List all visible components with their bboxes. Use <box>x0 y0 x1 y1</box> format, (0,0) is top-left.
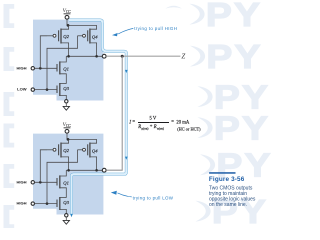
junction dot Q2 drain <box>67 169 70 172</box>
wire Z line <box>106 55 180 57</box>
output terminal <box>102 168 106 172</box>
input HIGH wire <box>35 203 57 205</box>
svg-text:Q2: Q2 <box>63 148 69 153</box>
figure caption rule <box>209 172 235 174</box>
output terminal <box>102 54 106 58</box>
svg-text:PY: PY <box>206 38 262 76</box>
current arrowhead 2 <box>125 157 128 160</box>
junction dot HIGH <box>39 181 42 184</box>
Vcc rail <box>67 26 97 30</box>
Q2 source lead <box>61 26 69 30</box>
transistor Q3 (NMOS) <box>57 197 60 210</box>
svg-text:Q4: Q4 <box>92 148 98 153</box>
svg-text:(HC or HCT): (HC or HCT) <box>177 126 201 131</box>
input HIGH wire <box>35 67 57 69</box>
Q1 drain lead up to output rail <box>60 170 67 176</box>
ground symbol <box>63 106 69 110</box>
svg-text:5 V: 5 V <box>149 117 156 122</box>
Q4 drain lead <box>90 157 97 170</box>
Vcc rail <box>67 140 97 144</box>
input LOW terminal <box>31 88 34 91</box>
wire Vcc down to rail <box>66 19 68 25</box>
svg-text:LOW: LOW <box>17 87 27 92</box>
transistor Q4 (PMOS) <box>78 29 90 44</box>
svg-text:Q1: Q1 <box>63 180 69 185</box>
current arrowhead 1 <box>125 70 128 73</box>
junction dot Vcc rail <box>67 24 70 27</box>
svg-text:=: = <box>132 120 135 125</box>
Vcc power bar <box>64 127 71 129</box>
svg-text:=: = <box>171 120 174 125</box>
transistor Q4 (PMOS) <box>78 143 90 158</box>
svg-text:Q3: Q3 <box>63 200 69 205</box>
svg-text:Q1: Q1 <box>63 66 69 71</box>
svg-text:Q3: Q3 <box>63 86 69 91</box>
ground terminal <box>65 214 68 217</box>
svg-text:trying to pull LOW: trying to pull LOW <box>133 195 174 200</box>
svg-text:on the same line.: on the same line. <box>209 202 247 208</box>
Q3 source lead down to ground <box>60 95 67 99</box>
Q2 drain lead <box>61 43 69 56</box>
current equation <box>128 117 201 132</box>
annotation: trying to pull LOW <box>111 191 174 201</box>
blue current path fill <box>69 20 126 214</box>
input HIGH terminal <box>31 181 34 184</box>
svg-text:PY: PY <box>214 109 270 147</box>
Vcc terminal <box>65 15 69 19</box>
wire HIGH branch to Q2 gate <box>40 36 47 69</box>
wire connecting both outputs <box>106 56 122 170</box>
svg-text:HIGH: HIGH <box>16 65 26 70</box>
svg-text:20 mA: 20 mA <box>176 120 190 125</box>
gate background block <box>33 20 103 101</box>
ground stem <box>65 217 67 220</box>
figure caption text <box>209 185 256 208</box>
annotation: trying to pull HIGH <box>112 26 177 37</box>
Q2 source lead <box>61 140 69 144</box>
svg-text:HIGH: HIGH <box>16 179 26 184</box>
junction dot Q4 drain <box>95 169 98 172</box>
svg-text:Figure 3-56: Figure 3-56 <box>209 176 245 183</box>
junction dot HIGH <box>39 67 42 70</box>
wire input 2 branch to Q4 gate <box>47 150 78 204</box>
Vcc power bar <box>64 13 71 15</box>
svg-text:p(on): p(on) <box>142 126 149 130</box>
svg-text:n(on): n(on) <box>157 126 164 130</box>
wire HIGH branch to Q2 gate <box>40 150 47 183</box>
junction dot Vcc rail <box>67 138 70 141</box>
transistor Q3 (NMOS) <box>57 83 60 96</box>
svg-text:trying to pull HIGH: trying to pull HIGH <box>134 26 177 31</box>
wire Vcc down to rail <box>66 133 68 139</box>
blue current path outline <box>69 20 126 214</box>
input LOW wire <box>35 89 57 91</box>
svg-text:I: I <box>128 120 131 125</box>
input HIGH terminal <box>31 202 34 205</box>
svg-text:+: + <box>150 125 153 130</box>
Q1 drain lead up to output rail <box>60 56 67 62</box>
current arrowhead 3 (into ground) <box>70 214 73 217</box>
junction dot input 2 <box>46 88 49 91</box>
junction dot input 2 <box>46 202 49 205</box>
ground symbol <box>63 220 69 224</box>
ground terminal <box>65 100 68 103</box>
junction dot Q4 drain <box>95 55 98 58</box>
Q3 drain lead up <box>60 83 67 85</box>
transistor Q2 (PMOS) <box>47 143 61 158</box>
output rail <box>66 55 102 57</box>
transistor Q2 (PMOS) <box>47 29 61 44</box>
Q3 drain lead up <box>60 197 67 199</box>
junction dot on Z line <box>121 55 124 58</box>
Q2 drain lead <box>61 157 69 170</box>
wire input 2 branch to Q4 gate <box>47 36 78 90</box>
ground stem <box>65 103 67 106</box>
Q1 source lead down <box>60 74 67 84</box>
input HIGH terminal <box>31 67 34 70</box>
svg-text:HIGH: HIGH <box>16 201 26 206</box>
gate background block <box>33 134 103 215</box>
output rail <box>66 169 102 171</box>
Vcc terminal <box>65 129 69 133</box>
junction dot Q2 drain <box>67 55 70 58</box>
svg-text:Q4: Q4 <box>92 34 98 39</box>
Q4 drain lead <box>90 43 97 56</box>
svg-text:Z: Z <box>181 52 185 60</box>
transistor Q1 (NMOS) <box>57 61 60 74</box>
transistor Q1 (NMOS) <box>57 175 60 188</box>
Q1 source lead down <box>60 188 67 198</box>
svg-text:PY: PY <box>206 0 262 33</box>
Q3 source lead down to ground <box>60 209 67 213</box>
input HIGH wire <box>35 181 57 183</box>
svg-text:Q2: Q2 <box>63 34 69 39</box>
